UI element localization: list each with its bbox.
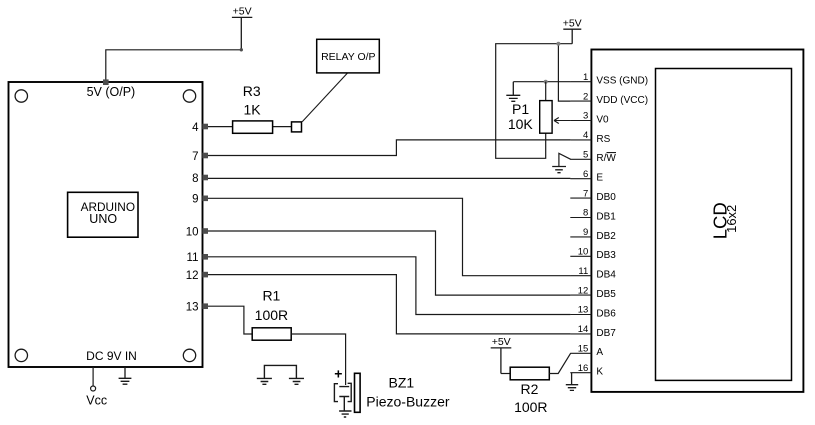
pin square 5V top xyxy=(103,79,109,85)
svg-text:16: 16 xyxy=(578,363,589,374)
pot wiper arrow to V0 xyxy=(554,118,570,124)
svg-text:12: 12 xyxy=(578,285,589,296)
svg-text:+5V: +5V xyxy=(233,6,252,18)
power symbol +5V (top-left) xyxy=(232,17,252,49)
svg-text:V0: V0 xyxy=(596,114,609,125)
wire Vcc stub xyxy=(92,367,94,386)
pin square 10 xyxy=(202,228,208,234)
svg-text:14: 14 xyxy=(578,324,589,335)
LCD pin stubs 1-16 xyxy=(570,82,591,373)
svg-text:16x2: 16x2 xyxy=(724,205,739,233)
svg-text:+5V: +5V xyxy=(492,336,511,348)
wire +5V to R2 xyxy=(501,373,510,375)
svg-text:8: 8 xyxy=(583,208,588,219)
buzzer body bar xyxy=(355,373,361,412)
piezo buzzer BZ1 xyxy=(334,383,351,417)
svg-text:10: 10 xyxy=(186,226,199,238)
svg-text:5V (O/P): 5V (O/P) xyxy=(87,85,136,99)
svg-text:+: + xyxy=(334,366,342,382)
wire pin11 to LCD DB6 xyxy=(208,257,570,315)
svg-text:DB0: DB0 xyxy=(596,192,616,203)
LCD pin numbers xyxy=(578,72,589,374)
wire R2 to LCD A pin15 xyxy=(549,353,570,373)
svg-text:Vcc: Vcc xyxy=(86,393,107,407)
wire pin7 to LCD RS xyxy=(208,140,570,156)
callout line to relay box xyxy=(302,73,347,122)
svg-text:12: 12 xyxy=(186,270,199,282)
LCD screen inner box xyxy=(656,69,792,381)
mounting hole top-right xyxy=(183,90,195,102)
wire +5V to Arduino 5V(O/P) xyxy=(106,50,242,82)
pin square 4 xyxy=(202,124,208,130)
R/W switch to ground xyxy=(559,153,571,166)
pin square 8 xyxy=(202,175,208,181)
double ground jumper xyxy=(257,365,304,384)
svg-text:DB2: DB2 xyxy=(596,231,616,242)
svg-text:5: 5 xyxy=(583,150,588,161)
svg-text:11: 11 xyxy=(578,266,588,277)
resistor R3 xyxy=(208,121,292,133)
svg-text:RS: RS xyxy=(596,134,610,145)
svg-text:E: E xyxy=(596,173,603,184)
svg-text:9: 9 xyxy=(583,227,588,238)
wire R1 to buzzer xyxy=(291,334,345,385)
svg-text:K: K xyxy=(596,367,603,378)
svg-text:15: 15 xyxy=(578,344,589,355)
wire pin9 to LCD DB4 xyxy=(208,198,570,275)
ground (Arduino DC in) xyxy=(119,367,132,384)
svg-text:2: 2 xyxy=(583,91,588,102)
junction dot (+5V tee) xyxy=(556,42,560,46)
svg-text:1K: 1K xyxy=(243,101,261,117)
potentiometer P1 xyxy=(540,82,552,134)
svg-text:DB1: DB1 xyxy=(596,211,616,222)
svg-text:P1: P1 xyxy=(512,101,529,117)
wire +5V to LCD VDD pin2 xyxy=(558,44,570,101)
resistor R1 xyxy=(252,328,291,340)
Vcc terminal circle xyxy=(91,386,96,391)
svg-text:R/W: R/W xyxy=(596,153,616,164)
svg-text:10: 10 xyxy=(578,247,589,258)
svg-text:1: 1 xyxy=(583,72,588,83)
svg-text:R2: R2 xyxy=(521,381,539,397)
svg-text:BZ1: BZ1 xyxy=(389,375,415,391)
junction corner dot xyxy=(240,48,243,51)
wire pin13 to R1 xyxy=(208,306,252,334)
ground (LCD VSS) xyxy=(506,82,520,102)
svg-text:UNO: UNO xyxy=(89,212,117,226)
wire VSS ground to LCD pin1 xyxy=(513,81,570,83)
svg-text:7: 7 xyxy=(583,188,588,199)
mounting hole bottom-right xyxy=(183,349,195,361)
pin square 9 xyxy=(202,196,208,202)
svg-text:R3: R3 xyxy=(243,83,261,99)
svg-text:RELAY O/P: RELAY O/P xyxy=(321,51,375,63)
pin square 7 xyxy=(202,153,208,159)
svg-text:R1: R1 xyxy=(262,288,280,304)
svg-text:DB7: DB7 xyxy=(596,328,616,339)
svg-text:DC 9V IN: DC 9V IN xyxy=(86,349,137,363)
svg-text:6: 6 xyxy=(583,169,588,180)
svg-text:DB3: DB3 xyxy=(596,250,616,261)
LCD module box xyxy=(591,50,803,392)
svg-text:+5V: +5V xyxy=(563,18,582,30)
svg-text:VSS (GND): VSS (GND) xyxy=(596,76,648,87)
svg-text:100R: 100R xyxy=(255,307,288,323)
svg-text:100R: 100R xyxy=(514,399,547,415)
wire pin10 to LCD DB5 xyxy=(208,231,570,295)
pin square 13 xyxy=(202,303,208,309)
svg-text:4: 4 xyxy=(583,130,588,141)
power symbol +5V (R2) xyxy=(491,348,512,374)
wire pin8 to LCD E xyxy=(208,177,570,179)
svg-text:4: 4 xyxy=(192,122,199,134)
LCD pin names xyxy=(596,76,648,378)
power symbol +5V (top-right) xyxy=(563,29,581,44)
resistor R2 xyxy=(510,367,549,380)
svg-text:10K: 10K xyxy=(508,116,534,132)
svg-text:A: A xyxy=(596,347,603,358)
svg-text:13: 13 xyxy=(186,302,199,314)
mounting hole bottom-left xyxy=(15,349,27,361)
ground (R/W) xyxy=(552,167,566,173)
svg-text:Piezo-Buzzer: Piezo-Buzzer xyxy=(366,393,450,409)
pin square 11 xyxy=(202,254,208,260)
svg-text:DB4: DB4 xyxy=(596,270,616,281)
svg-text:9: 9 xyxy=(192,194,198,206)
svg-text:3: 3 xyxy=(583,111,588,122)
svg-text:8: 8 xyxy=(192,173,198,185)
relay annotation box xyxy=(317,39,380,73)
ground (LCD K pin16) xyxy=(566,373,578,391)
ARDUINO UNO inner box xyxy=(68,192,138,237)
svg-text:11: 11 xyxy=(187,252,199,264)
overline on W of R/W xyxy=(607,152,617,154)
svg-text:DB6: DB6 xyxy=(596,308,616,319)
pin square 12 xyxy=(202,272,208,278)
svg-text:DB5: DB5 xyxy=(596,289,616,300)
relay output terminal square xyxy=(292,122,302,132)
Arduino UNO board U1 xyxy=(9,82,203,367)
junction dot (pot top on pin1 wire) xyxy=(544,80,548,84)
wire pin12 to LCD DB7 xyxy=(208,275,570,334)
svg-text:13: 13 xyxy=(578,305,589,316)
svg-text:VDD (VCC): VDD (VCC) xyxy=(596,95,648,106)
svg-text:7: 7 xyxy=(192,151,198,163)
wire +5V rail to pot bottom xyxy=(496,44,573,159)
mounting hole top-left xyxy=(15,90,27,102)
